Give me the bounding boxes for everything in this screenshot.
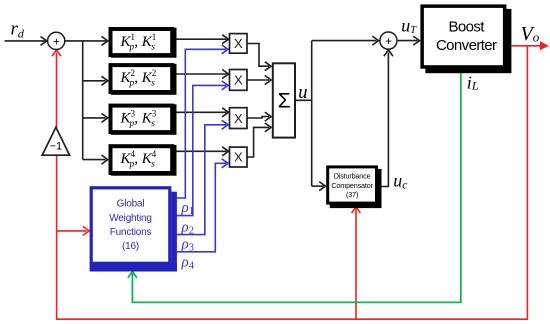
svg-text:+: + — [53, 36, 60, 48]
svg-text:iL: iL — [467, 73, 479, 93]
svg-text:uT: uT — [401, 15, 417, 36]
svg-text:ρ1: ρ1 — [181, 200, 194, 217]
svg-text:K4p, K4s: K4p, K4s — [120, 149, 157, 170]
svg-text:Compensator: Compensator — [331, 181, 373, 190]
svg-text:X: X — [234, 73, 243, 88]
svg-text:K1p, K1s: K1p, K1s — [120, 32, 157, 53]
svg-text:X: X — [234, 36, 243, 51]
svg-text:Weighting: Weighting — [109, 213, 152, 224]
svg-text:K3p, K3s: K3p, K3s — [120, 108, 157, 128]
svg-text:−1: −1 — [50, 141, 63, 153]
svg-text:uc: uc — [393, 171, 407, 192]
svg-text:ρ3: ρ3 — [181, 237, 194, 254]
svg-text:(37): (37) — [346, 190, 358, 199]
svg-text:Boost: Boost — [449, 18, 486, 35]
svg-text:Disturbance: Disturbance — [334, 171, 371, 180]
svg-text:X: X — [234, 150, 243, 165]
svg-text:K2p, K2s: K2p, K2s — [120, 68, 157, 89]
svg-text:Global: Global — [117, 198, 145, 209]
svg-text:Converter: Converter — [436, 37, 497, 54]
svg-text:ρ2: ρ2 — [181, 220, 194, 237]
svg-text:rd: rd — [11, 19, 25, 41]
svg-text:Σ: Σ — [278, 90, 291, 113]
svg-text:Vo: Vo — [521, 23, 540, 45]
svg-text:X: X — [234, 111, 243, 126]
svg-text:ρ4: ρ4 — [181, 255, 195, 272]
svg-text:u: u — [298, 83, 307, 103]
svg-text:(16): (16) — [122, 241, 139, 252]
svg-text:+: + — [385, 36, 392, 48]
svg-text:Functions: Functions — [110, 227, 152, 238]
